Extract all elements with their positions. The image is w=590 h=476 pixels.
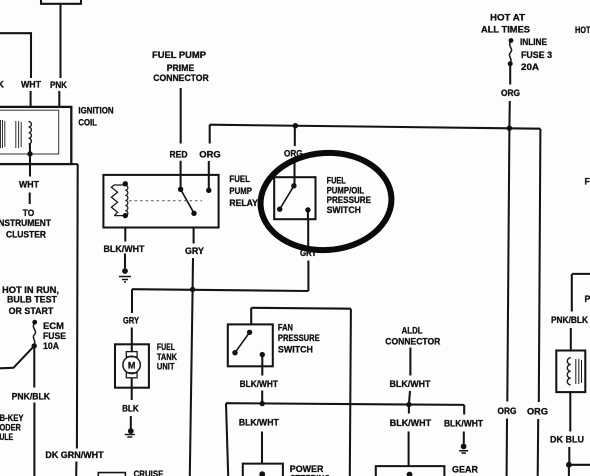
svg-text:F: F: [585, 177, 590, 187]
svg-text:HOT IN RUN,: HOT IN RUN,: [2, 285, 59, 295]
svg-text:BLK: BLK: [122, 404, 139, 414]
svg-text:FUEL: FUEL: [229, 174, 250, 184]
svg-text:ALDL: ALDL: [402, 325, 424, 335]
svg-text:PUMP: PUMP: [229, 186, 252, 196]
svg-text:FUSE 3: FUSE 3: [521, 50, 552, 60]
svg-text:ORG: ORG: [199, 150, 221, 160]
svg-text:PNK: PNK: [50, 80, 68, 90]
svg-text:ORG: ORG: [527, 407, 548, 417]
svg-text:DK GRN/WHT: DK GRN/WHT: [45, 450, 104, 460]
svg-text:BLK/WHT: BLK/WHT: [239, 417, 280, 427]
svg-text:DK BLU: DK BLU: [550, 435, 584, 445]
svg-text:IGNITION: IGNITION: [78, 105, 113, 115]
svg-text:FUEL PUMP: FUEL PUMP: [152, 50, 206, 60]
svg-text:UNIT: UNIT: [157, 362, 175, 372]
svg-text:BLK/WHT: BLK/WHT: [104, 244, 146, 254]
svg-text:PNK/BLK: PNK/BLK: [12, 392, 51, 402]
svg-text:ALL TIMES: ALL TIMES: [481, 24, 530, 34]
svg-text:FUEL: FUEL: [327, 176, 347, 186]
svg-text:GRY: GRY: [300, 248, 317, 258]
svg-text:BLK/WHT: BLK/WHT: [390, 379, 432, 389]
svg-text:FUSE: FUSE: [43, 331, 66, 341]
svg-text:OR START: OR START: [9, 306, 54, 316]
svg-text:B-KEY: B-KEY: [0, 413, 24, 423]
svg-text:FUEL: FUEL: [157, 342, 176, 352]
svg-text:K: K: [0, 80, 5, 90]
svg-text:BLK/WHT: BLK/WHT: [390, 418, 432, 428]
svg-text:GEAR: GEAR: [452, 465, 479, 475]
svg-text:TO: TO: [23, 208, 35, 218]
svg-text:BLK/WHT: BLK/WHT: [240, 379, 279, 389]
svg-text:P: P: [585, 294, 590, 304]
svg-text:RELAY: RELAY: [229, 198, 258, 208]
svg-text:RED: RED: [170, 149, 188, 159]
svg-text:ORG: ORG: [284, 148, 303, 158]
svg-text:SWITCH: SWITCH: [327, 205, 361, 215]
svg-text:CONNECTOR: CONNECTOR: [153, 73, 209, 83]
svg-text:SWITCH: SWITCH: [278, 345, 313, 355]
svg-text:CONNECTOR: CONNECTOR: [385, 336, 441, 346]
svg-text:FAN: FAN: [278, 322, 293, 332]
svg-text:WHT: WHT: [21, 80, 42, 90]
svg-text:ECM: ECM: [43, 321, 64, 331]
svg-text:COIL: COIL: [78, 117, 97, 127]
svg-text:PNK/BLK: PNK/BLK: [551, 315, 589, 325]
svg-text:20A: 20A: [521, 62, 540, 72]
svg-text:TANK: TANK: [157, 352, 178, 362]
svg-text:PRIME: PRIME: [167, 63, 195, 73]
svg-text:GRY: GRY: [185, 246, 204, 256]
svg-text:BLK/WHT: BLK/WHT: [444, 419, 484, 429]
svg-text:GRY: GRY: [123, 315, 139, 325]
svg-text:CRUISE: CRUISE: [134, 469, 164, 476]
svg-text:HOT AT: HOT AT: [490, 12, 526, 22]
svg-text:HOT: HOT: [575, 25, 590, 35]
svg-text:M: M: [128, 360, 136, 370]
svg-text:ULE: ULE: [0, 432, 13, 442]
svg-text:CLUSTER: CLUSTER: [6, 229, 47, 239]
svg-text:INLINE: INLINE: [520, 37, 547, 47]
svg-text:WHT: WHT: [19, 179, 40, 189]
svg-text:10A: 10A: [43, 341, 60, 351]
svg-text:PRESSURE: PRESSURE: [278, 333, 320, 343]
svg-text:BULB TEST: BULB TEST: [7, 295, 58, 305]
svg-text:ORG: ORG: [498, 406, 517, 416]
svg-text:INSTRUMENT: INSTRUMENT: [0, 218, 52, 228]
svg-text:ORG: ORG: [501, 88, 520, 98]
svg-text:PRESSURE: PRESSURE: [327, 195, 372, 205]
